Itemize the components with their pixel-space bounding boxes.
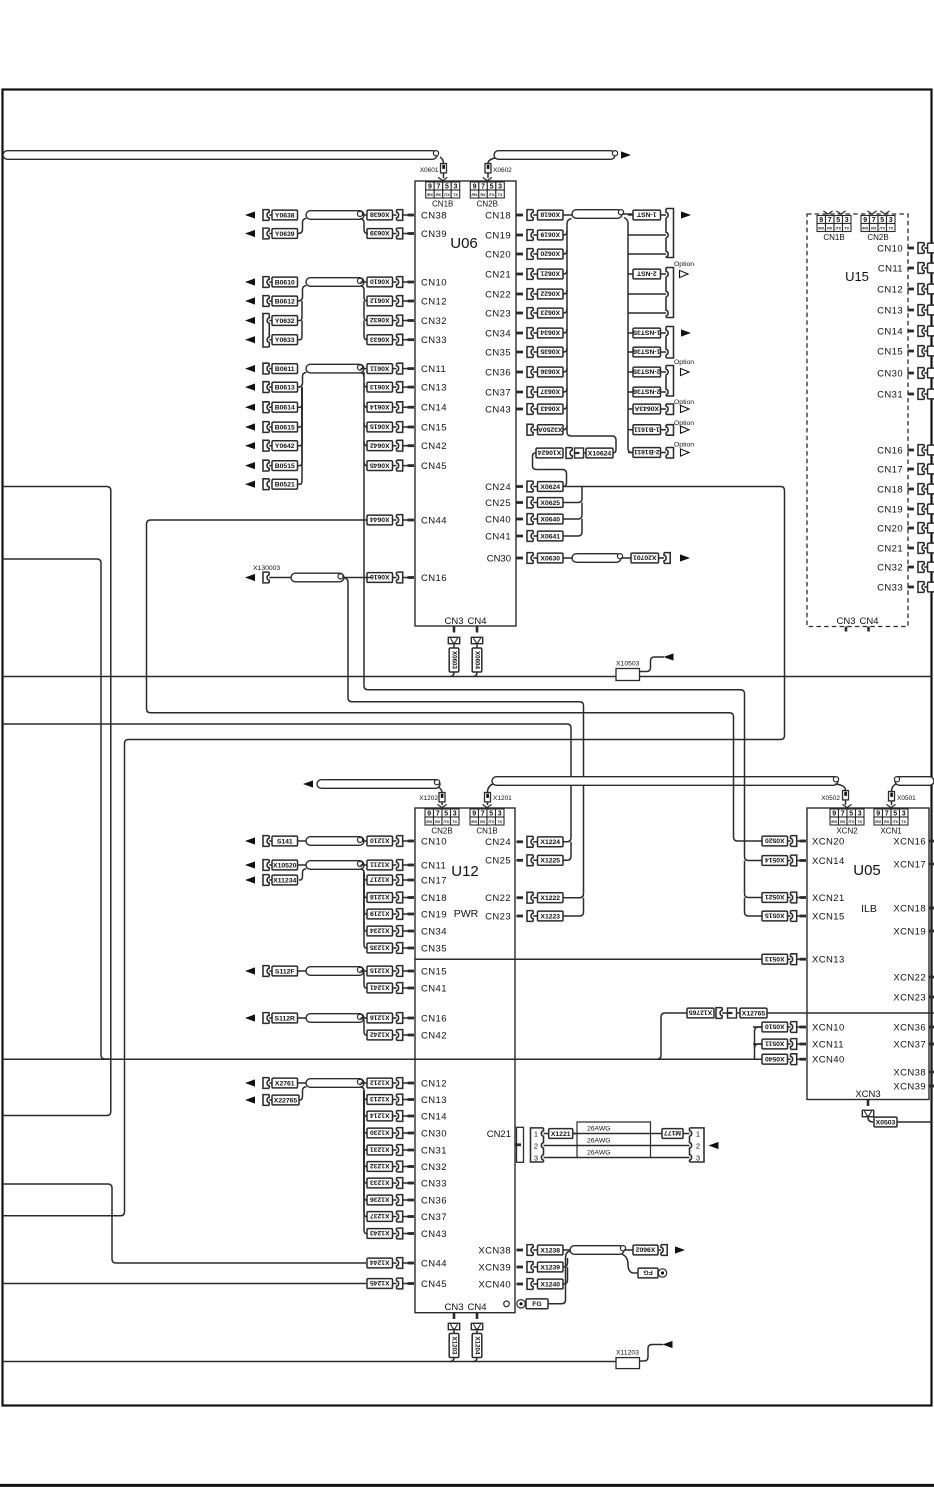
U12 CN4 pin stub <box>476 1313 479 1319</box>
svg-text:X0643: X0643 <box>540 405 560 412</box>
svg-text:CN14: CN14 <box>421 403 447 414</box>
X1203 vertical label <box>453 1330 455 1333</box>
caret above XCN1 <box>886 804 895 807</box>
svg-text:X0604: X0604 <box>474 651 481 669</box>
svg-text:X0630: X0630 <box>540 555 560 562</box>
svg-text:RX: RX <box>884 820 890 824</box>
right bus group3 continues down to L2 <box>364 383 367 387</box>
U06 right row CN23 X0623 <box>485 308 567 320</box>
FG wire joins X9602 cable bundle <box>548 1251 570 1304</box>
U05 right row XCN16 <box>893 836 934 847</box>
svg-text:CN17: CN17 <box>877 464 903 475</box>
svg-text:CN20: CN20 <box>877 523 903 534</box>
svg-text:X1237: X1237 <box>370 1212 390 1219</box>
svg-text:X1240: X1240 <box>540 1281 560 1288</box>
svg-text:X0620: X0620 <box>540 250 560 257</box>
X0603 vertical label <box>453 644 455 648</box>
svg-text:X0625: X0625 <box>540 500 560 507</box>
wire: branch x571 down to X1225/CN25 <box>561 842 571 861</box>
U06 right remote label 1-B1611 <box>633 425 661 435</box>
U12 left row CN18 X1218 <box>367 892 447 904</box>
U06 right remote label 2-NST <box>633 269 661 279</box>
svg-text:/TX: /TX <box>443 820 449 824</box>
svg-text:CN14: CN14 <box>421 1111 447 1122</box>
U12 power board block <box>415 808 515 1313</box>
svg-text:CN18: CN18 <box>877 484 903 495</box>
svg-text:X0603: X0603 <box>451 651 458 669</box>
svg-text:X0623: X0623 <box>540 309 560 316</box>
svg-text:/RX: /RX <box>818 226 825 230</box>
U06 left row B0611 / X0611 <box>245 363 446 375</box>
U06 right remote label 1-NST <box>633 210 661 220</box>
wire: left-edge wire y559 down x101 to y1059 (to XCN40/X0540 line) <box>3 559 111 1059</box>
cable X0601 to left page edge <box>3 151 437 160</box>
U12 left row CN41 X1241 <box>367 983 447 995</box>
svg-text:X1242: X1242 <box>370 1031 390 1038</box>
U05 right row XCN23 <box>893 992 934 1003</box>
svg-text:X1210: X1210 <box>370 837 390 844</box>
svg-text:CN40: CN40 <box>485 514 511 525</box>
svg-text:CN25: CN25 <box>485 856 511 867</box>
svg-text:B0612: B0612 <box>275 298 295 305</box>
svg-text:X11203: X11203 <box>616 1350 639 1357</box>
U06 right row CN43 X0643 <box>485 404 567 416</box>
U06 main board block <box>415 181 516 626</box>
svg-text:CN20: CN20 <box>485 249 511 260</box>
svg-text:X0641: X0641 <box>540 533 560 540</box>
svg-text:CN3: CN3 <box>836 616 855 627</box>
svg-text:CN41: CN41 <box>421 983 447 994</box>
right distribution bus x626 <box>624 218 632 453</box>
svg-text:XCN20: XCN20 <box>812 836 845 847</box>
svg-text:CN10: CN10 <box>421 277 447 288</box>
svg-text:X1213: X1213 <box>370 1095 390 1102</box>
bracket X0643A <box>666 404 674 415</box>
wire: branch x744.5 to X0515/XCN15 <box>745 898 763 917</box>
svg-text:CN24: CN24 <box>485 837 511 848</box>
bracket for 2-NST35/2-NST36 group (CN36-37) <box>666 366 674 397</box>
U15 right row CN32 <box>877 562 934 574</box>
U06 right row CN25 X0625 <box>485 497 563 509</box>
svg-text:/TX: /TX <box>892 820 898 824</box>
svg-text:CN3: CN3 <box>444 1302 463 1313</box>
svg-text:CN31: CN31 <box>421 1145 447 1156</box>
wire X0601 to header <box>443 173 445 178</box>
svg-text:FG: FG <box>643 1269 652 1276</box>
U12 left row CN42 X1242 <box>367 1030 447 1042</box>
svg-text:X0645: X0645 <box>370 461 390 468</box>
svg-text:Option: Option <box>674 442 694 449</box>
svg-text:CN42: CN42 <box>421 1030 447 1041</box>
svg-text:X0503: X0503 <box>876 1119 896 1126</box>
svg-text:CN3: CN3 <box>444 616 463 627</box>
svg-text:B0515: B0515 <box>275 463 295 470</box>
wires CN19/CN20 to bracket <box>628 234 666 236</box>
U06 left row B0521 / joins cable <box>245 479 298 490</box>
wire: full-width bus line L1 <box>3 676 932 678</box>
svg-text:2: 2 <box>696 1142 700 1151</box>
X1204 vertical label <box>476 1330 478 1333</box>
svg-text:X10503: X10503 <box>616 661 640 668</box>
svg-text:X1221: X1221 <box>551 1131 571 1138</box>
X12765 inline connector pair <box>687 1008 767 1019</box>
svg-text:XCN16: XCN16 <box>893 836 926 847</box>
U15 right row CN31 <box>877 389 934 401</box>
U12 left row CN45 X1245 <box>367 1278 447 1290</box>
svg-text:S141: S141 <box>277 838 293 845</box>
svg-text:1: 1 <box>696 1130 700 1139</box>
cable X0602 <box>494 151 615 160</box>
arrow right at X0602 cable <box>621 151 631 158</box>
svg-text:XCN15: XCN15 <box>812 911 845 922</box>
svg-text:X0619: X0619 <box>540 231 560 238</box>
svg-text:RX: RX <box>827 226 833 230</box>
svg-text:X1235: X1235 <box>370 944 390 951</box>
U12 left row CN37 X1237 <box>367 1211 447 1223</box>
U06 right row CN36 X0636 <box>485 367 567 379</box>
wire: branch x754.5 up to X0510/XCN10 and X0511/XCN11 <box>755 1027 763 1059</box>
svg-text:XCN39: XCN39 <box>478 1262 511 1273</box>
U05 header XCN2 <box>830 809 839 817</box>
svg-text:CN10: CN10 <box>877 243 903 254</box>
U05 right row XCN19 <box>893 926 934 937</box>
M177 label on wire <box>662 1129 683 1139</box>
bracket for 2-NST group (CN21-23) <box>666 268 674 318</box>
svg-text:XCN11: XCN11 <box>812 1039 844 1050</box>
svg-text:TX: TX <box>901 820 906 824</box>
svg-text:X0618: X0618 <box>540 211 560 218</box>
svg-text:CN21: CN21 <box>877 543 903 554</box>
svg-text:CN43: CN43 <box>421 1229 447 1240</box>
svg-text:M177: M177 <box>664 1129 681 1136</box>
U06 right row CN24 X0624 <box>485 481 563 493</box>
U12 right row CN25 X1225 <box>485 855 563 867</box>
svg-text:X0636: X0636 <box>540 368 560 375</box>
FG drain from cable right end <box>622 1254 638 1273</box>
U06 right row CN40 X0640 <box>485 514 563 526</box>
svg-text:X0602: X0602 <box>493 167 512 174</box>
U06 left cable group2 capsule (CN10/12/32/33) <box>306 278 364 287</box>
svg-text:CN15: CN15 <box>421 966 447 977</box>
U06 left row B0614 / X0614 <box>245 402 447 414</box>
svg-text:X0610: X0610 <box>370 278 390 285</box>
U06 left row B0612 / X0612 <box>245 296 447 308</box>
svg-text:Option: Option <box>674 261 694 268</box>
U15 optional board block (dashed) <box>807 214 908 627</box>
svg-text:26AWG: 26AWG <box>587 1138 611 1145</box>
caret above U12 CN2B <box>437 804 446 807</box>
U06 right remote label 2-B1611 <box>633 448 661 458</box>
svg-text:XCN2: XCN2 <box>836 827 858 836</box>
svg-text:TX: TX <box>888 226 893 230</box>
svg-text:1-NST36: 1-NST36 <box>633 348 660 355</box>
X0604 wire to bus L1 <box>473 672 477 677</box>
svg-text:X12765: X12765 <box>742 1010 766 1017</box>
svg-text:CN4: CN4 <box>467 616 486 627</box>
svg-text:X1203: X1203 <box>451 1337 458 1355</box>
U12 left row CN15 X1215 <box>245 966 447 978</box>
X1221 label on wire <box>549 1129 573 1139</box>
connector X0601 <box>441 164 447 173</box>
svg-text:Option: Option <box>674 399 694 406</box>
bus x567 for X0618..X3250A labels <box>567 219 616 454</box>
U12 left row CN12 X1212 <box>245 1078 447 1090</box>
svg-text:/RX: /RX <box>427 193 434 197</box>
svg-text:CN1B: CN1B <box>432 200 453 209</box>
svg-text:X0640: X0640 <box>540 516 560 523</box>
svg-text:X1222: X1222 <box>540 895 560 902</box>
svg-text:TX: TX <box>452 820 457 824</box>
svg-text:X0521: X0521 <box>765 893 785 900</box>
svg-text:CN11: CN11 <box>421 860 446 871</box>
svg-text:CN14: CN14 <box>877 326 903 337</box>
svg-text:X0633: X0633 <box>370 335 390 342</box>
svg-text:XCN18: XCN18 <box>893 903 926 914</box>
wire: left-edge wire y1283.5 to X1245/CN45 of U12 <box>3 1283 367 1285</box>
U05 left row XCN11 X0511 <box>762 1039 844 1051</box>
U12 left row CN35 X1235 <box>367 943 447 955</box>
svg-text:/RX: /RX <box>426 820 433 824</box>
svg-text:X1232: X1232 <box>370 1162 390 1169</box>
svg-text:CN19: CN19 <box>421 909 447 920</box>
connector X1202 <box>439 793 445 802</box>
svg-text:CN25: CN25 <box>485 498 511 509</box>
connector at X9602 <box>661 1245 667 1256</box>
svg-text:X20701: X20701 <box>633 554 657 561</box>
svg-text:XCN38: XCN38 <box>893 1067 926 1078</box>
svg-text:/TX: /TX <box>489 193 495 197</box>
U06 left cable group1 capsule (CN38/39) <box>306 211 364 220</box>
svg-text:CN42: CN42 <box>421 441 447 452</box>
U12 left row CN17 X1217 <box>245 875 447 887</box>
XCN3 pin stub <box>867 1100 870 1107</box>
svg-text:X0637: X0637 <box>540 388 560 395</box>
harness wires CN21 rows <box>544 1133 578 1135</box>
right bus S112F group (X1241) <box>361 970 368 972</box>
svg-text:X0614: X0614 <box>370 403 390 410</box>
svg-text:2: 2 <box>534 1142 538 1151</box>
U15 header CN1B <box>817 216 826 224</box>
svg-text:XCN39: XCN39 <box>893 1081 926 1092</box>
svg-text:X9602: X9602 <box>635 1246 655 1253</box>
svg-text:1-NST35: 1-NST35 <box>633 329 660 336</box>
svg-text:X1236: X1236 <box>370 1196 390 1203</box>
svg-text:CN36: CN36 <box>485 367 511 378</box>
connector X0602 <box>485 164 491 173</box>
svg-text:X0510: X0510 <box>765 1023 785 1030</box>
U15 right row CN21 <box>877 543 934 555</box>
svg-text:/TX: /TX <box>848 820 854 824</box>
svg-text:X0613: X0613 <box>370 383 390 390</box>
svg-text:CN12: CN12 <box>421 296 447 307</box>
svg-text:CN1B: CN1B <box>476 827 497 836</box>
svg-text:XCN38: XCN38 <box>478 1245 511 1256</box>
svg-text:X1241: X1241 <box>370 984 390 991</box>
right bus X2761 group <box>361 1082 368 1084</box>
svg-text:RX: RX <box>481 193 487 197</box>
svg-text:/RX: /RX <box>862 226 869 230</box>
svg-text:X1233: X1233 <box>370 1179 390 1186</box>
svg-text:X0624: X0624 <box>540 484 560 491</box>
right bus X10520 group <box>361 864 368 866</box>
svg-text:ILB: ILB <box>861 903 877 915</box>
svg-text:Y0638: Y0638 <box>275 212 295 219</box>
svg-text:XCN10: XCN10 <box>812 1022 845 1033</box>
X0511 wire to bus <box>753 1043 762 1045</box>
svg-text:CN12: CN12 <box>877 284 903 295</box>
arrow right X9602 <box>675 1246 685 1253</box>
svg-text:Y0633: Y0633 <box>275 337 295 344</box>
U06 right row CN30 X0630 <box>487 553 572 565</box>
svg-text:X2761: X2761 <box>275 1080 295 1087</box>
U12 cable S112F capsule <box>306 967 364 976</box>
CN4 pin stub <box>476 626 479 633</box>
X20701 remote label <box>621 557 631 559</box>
svg-text:X10624: X10624 <box>538 449 562 456</box>
svg-text:X10520: X10520 <box>273 862 297 869</box>
X10624 inline connector pair <box>536 448 613 459</box>
U12 left row CN14 X1214 <box>367 1111 447 1123</box>
svg-text:B0613: B0613 <box>275 385 295 392</box>
svg-text:CN17: CN17 <box>421 875 447 886</box>
svg-text:X1216: X1216 <box>370 1014 390 1021</box>
wire: U06 CN24/X0624 long route right-down-left-down to left edge y1215.7 <box>3 487 785 1216</box>
svg-text:Y0632: Y0632 <box>275 318 295 325</box>
wire: X11203 line y1361.5 from left edge <box>3 1361 621 1363</box>
svg-text:/RX: /RX <box>472 193 479 197</box>
svg-text:X11234: X11234 <box>273 877 296 884</box>
U06 left row Y0633 / X0633 <box>245 334 447 346</box>
svg-text:X0638: X0638 <box>370 211 390 218</box>
svg-text:X0520: X0520 <box>765 837 785 844</box>
U12 left row X22765 (joins X2761 cable) <box>245 1095 299 1106</box>
U06 right row CN22 X0622 <box>485 289 567 301</box>
X130003 cable capsule <box>291 573 344 582</box>
cable X0501 (goes off right) <box>895 777 934 786</box>
wire x733.5 overlay across X1201 cable <box>733 777 735 786</box>
U06 left row B0615 / X0615 <box>245 422 447 434</box>
X1204 wire to line <box>473 1358 477 1362</box>
right bus group1 (X0639) <box>360 219 368 234</box>
svg-text:X1234: X1234 <box>370 927 390 934</box>
U12 left row CN34 X1234 <box>367 926 447 938</box>
svg-text:XCN1: XCN1 <box>880 827 902 836</box>
wire capsule to 1-NST <box>622 213 633 215</box>
U06 right row CN18 X0618 <box>485 210 572 222</box>
svg-text:X0511: X0511 <box>765 1040 784 1047</box>
svg-text:CN22: CN22 <box>485 893 511 904</box>
svg-text:CN45: CN45 <box>421 461 447 472</box>
svg-text:X1204: X1204 <box>474 1337 481 1355</box>
svg-text:CN4: CN4 <box>859 616 878 627</box>
svg-text:TX: TX <box>498 193 503 197</box>
U05 right row XCN39 <box>893 1081 934 1092</box>
U12 left row CN31 X1231 <box>367 1145 447 1157</box>
svg-text:Y0642: Y0642 <box>275 443 295 450</box>
wire: X12765 line y1058 branch up from y1059 line <box>657 1013 687 1059</box>
svg-text:X1214: X1214 <box>370 1112 390 1119</box>
svg-text:XCN13: XCN13 <box>812 955 845 966</box>
U12 right row CN24 X1224 <box>485 836 563 848</box>
U05 left row XCN14 X0514 <box>762 855 845 867</box>
CN3 connector <box>448 637 459 643</box>
svg-text:U06: U06 <box>450 235 478 252</box>
wire: branch x583.5 down to X1223/CN23 <box>561 898 584 916</box>
svg-text:B0614: B0614 <box>275 405 295 412</box>
svg-text:26AWG: 26AWG <box>587 1150 611 1157</box>
M177 socket block pins 1-3 <box>690 1128 705 1162</box>
svg-text:CN16: CN16 <box>421 573 447 584</box>
X0503 label <box>868 1117 873 1122</box>
X0510 wire to bus <box>753 1026 762 1028</box>
X11203 stub wire with left arrow <box>640 1345 664 1362</box>
wire: L3 route X1300D3/CN16 drop x348 down right to x583.5 down to X1222/X1223 <box>344 578 584 898</box>
svg-text:CN30: CN30 <box>421 1128 447 1139</box>
CN3 pin stub <box>453 626 456 633</box>
svg-text:26AWG: 26AWG <box>587 1126 611 1133</box>
U05 right row XCN36 <box>893 1022 934 1033</box>
U06 right row X3250A (no pin) <box>527 424 567 435</box>
cable X1202 (goes off left) <box>303 780 313 787</box>
wire x744.5 overlay across X1201 cable <box>744 777 746 786</box>
svg-text:CN10: CN10 <box>421 836 447 847</box>
svg-text:X0601: X0601 <box>420 167 439 174</box>
svg-text:CN37: CN37 <box>485 387 511 398</box>
svg-text:CN4: CN4 <box>467 1302 486 1313</box>
svg-text:CN33: CN33 <box>421 335 447 346</box>
svg-text:CN15: CN15 <box>877 346 903 357</box>
U12 left row CN13 X1213 <box>367 1094 447 1106</box>
svg-text:CN2B: CN2B <box>867 233 888 242</box>
U12 FG terminal <box>504 1301 510 1307</box>
svg-text:X1219: X1219 <box>370 910 390 917</box>
carets above U15 CN2B <box>867 211 876 214</box>
U12 cable X10520 capsule <box>306 861 364 870</box>
svg-text:XCN14: XCN14 <box>812 856 845 867</box>
svg-text:X0616: X0616 <box>370 573 390 580</box>
wire: left-edge wire y1184 down x112 to y1263 to X1244/CN44 of U12 <box>3 1184 367 1263</box>
svg-text:B0610: B0610 <box>275 279 295 286</box>
remote FG lug <box>638 1268 658 1278</box>
svg-text:CN34: CN34 <box>421 926 447 937</box>
svg-text:CN2B: CN2B <box>477 200 498 209</box>
wire X0602 to header <box>487 173 489 178</box>
svg-text:CN11: CN11 <box>878 263 903 274</box>
svg-text:X12765: X12765 <box>689 1009 713 1016</box>
left bus X22765 joins X2761 cable <box>299 1087 306 1100</box>
svg-text:FG: FG <box>532 1301 541 1308</box>
cable X1201-X0502 linking U12 and U05 <box>492 777 838 786</box>
U15 right row CN30 <box>877 368 934 380</box>
wire: L4 route CN44(U06)/X0644 to X0520/XCN20 of U05 <box>147 520 763 841</box>
svg-text:X0634: X0634 <box>540 329 560 336</box>
svg-text:S112F: S112F <box>275 968 295 975</box>
U06 left row Y0639 / X0639 <box>245 228 447 240</box>
svg-text:TX: TX <box>497 820 502 824</box>
svg-text:CN33: CN33 <box>421 1178 447 1189</box>
svg-text:CN37: CN37 <box>421 1212 447 1223</box>
svg-text:X1212: X1212 <box>370 1079 390 1086</box>
U06 header CN1B <box>426 182 435 190</box>
U06 left row Y0638 / X0638 <box>245 210 447 222</box>
U15 right row CN14 <box>877 326 934 338</box>
svg-text:CN16: CN16 <box>877 445 903 456</box>
svg-text:CN23: CN23 <box>485 308 511 319</box>
svg-text:CN23: CN23 <box>485 911 511 922</box>
U15 right row CN20 <box>877 523 934 535</box>
U12 CN3 connector <box>448 1323 459 1329</box>
svg-text:/TX: /TX <box>835 226 841 230</box>
